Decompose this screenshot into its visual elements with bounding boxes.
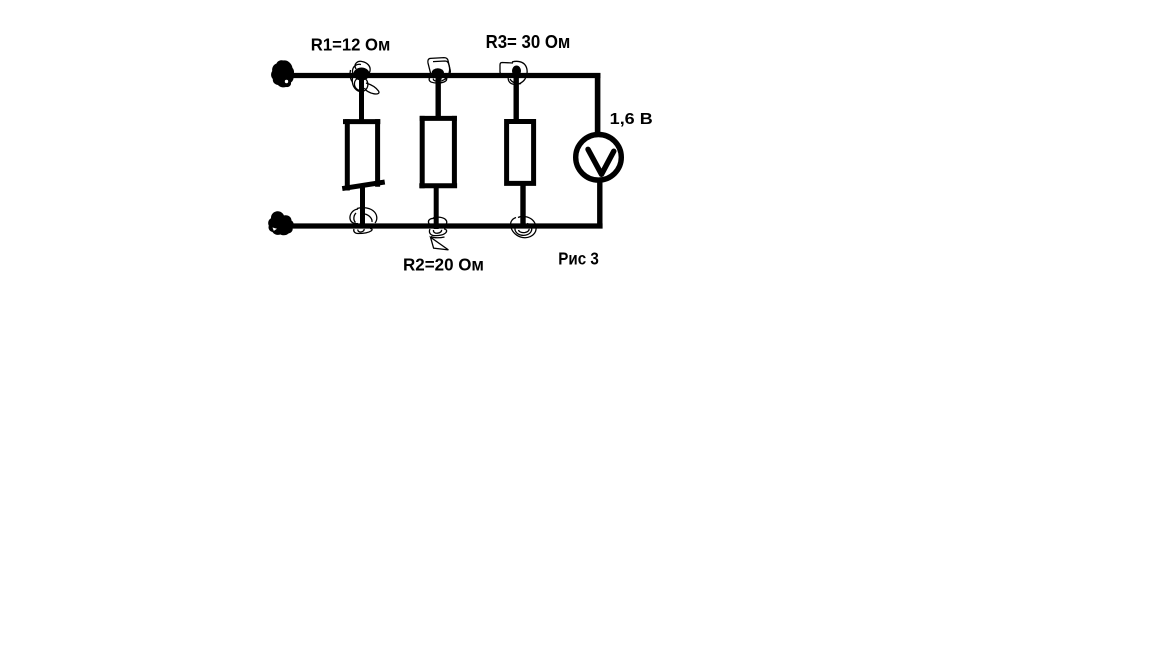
wire voltmeter bottom lead [597,176,602,226]
junction R3 bottom scribble [511,216,537,237]
terminal bottom-left [268,211,294,235]
wire R3 bottom lead [520,183,525,226]
wire R1 top lead [359,75,364,122]
wire voltmeter top lead [595,73,601,140]
svg-text:Рис 3: Рис 3 [558,249,599,269]
terminal top-left [271,60,294,87]
wire R2 top lead [436,75,441,120]
resistor R2 [422,118,455,185]
resistor R3 [507,122,534,184]
svg-text:1,6 В: 1,6 В [610,111,653,128]
junction R3 top scribble [500,61,527,84]
junction R2 top scribble [428,58,450,83]
svg-text:R2=20 Ом: R2=20 Ом [403,255,484,275]
wire R1 bottom lead [360,185,365,226]
voltmeter U1 [576,135,622,181]
svg-text:R1=12 Ом: R1=12 Ом [311,35,391,55]
resistor R1 [345,122,383,189]
junction R2 bottom scribble [428,217,448,250]
wire R2 bottom lead [434,186,439,229]
junction R1 top scribble [350,61,379,94]
wire bottom bus [286,223,603,228]
junction R1 bottom scribble [350,208,377,234]
svg-text:R3= 30 Ом: R3= 30 Ом [486,32,571,52]
wire top bus [286,73,600,78]
wire R3 top lead [514,75,519,122]
